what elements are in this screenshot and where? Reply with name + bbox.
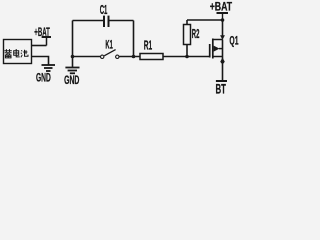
svg-text:C1: C1 [100,2,108,17]
svg-text:+BAT: +BAT [34,25,50,39]
node junction at riser/lower rail [71,55,75,59]
battery label 蓄电池 (drawn glyphs) [4,49,28,58]
svg-text:BT: BT [216,80,227,95]
svg-text:R2: R2 [192,26,200,41]
池 [21,50,28,58]
svg-text:GND: GND [64,73,79,87]
power +BAT (right) [217,13,229,20]
svg-text:R1: R1 [144,37,152,52]
switch K1 [101,50,120,59]
resistor R1 [140,54,163,60]
wire drain lead [222,20,224,36]
transistor Q1 (N-MOSFET) [210,35,225,62]
wire battery bottom to ground [32,57,49,66]
wire lower rail to switch [73,56,101,58]
wire battery top to +BAT [32,45,47,47]
svg-text:K1: K1 [105,37,113,51]
wire R1 to gate [163,56,210,58]
node junction at corner / lower rail [132,55,136,59]
svg-text:+BAT: +BAT [210,0,233,13]
wire source to BT [222,62,224,81]
power +BAT (left) [42,37,51,46]
node junction R2 bottom [185,55,189,59]
node junction source/body [221,60,225,64]
wire top rail to C1 [73,20,104,22]
wire switch to R1 [119,56,140,58]
port BT bar [216,80,227,82]
capacitor C1 [104,16,109,27]
svg-text:GND: GND [36,70,51,84]
battery 蓄电池 box [4,40,32,64]
svg-text:Q1: Q1 [229,33,238,47]
wire corner down to lower rail [133,21,135,57]
wire top right rail [187,19,223,21]
wire vertical left riser [72,21,74,68]
resistor R2 [184,20,191,57]
电 [14,49,20,57]
wire C1 to corner [110,20,134,22]
ground GND2 [65,68,79,74]
node junction +BAT rail / drain [221,18,225,22]
ground GND1 [42,65,56,71]
蓄 [4,49,11,58]
